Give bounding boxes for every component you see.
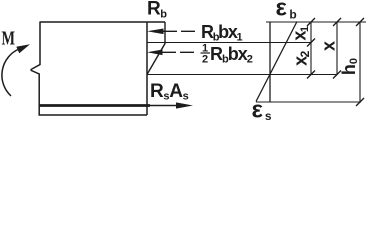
svg-text:Rbbx1: Rbbx1 [201,22,243,44]
svg-text:x: x [319,41,339,51]
svg-text:2: 2 [202,54,208,66]
svg-text:Rbbx2: Rbbx2 [210,44,253,66]
svg-text:M: M [2,28,16,50]
